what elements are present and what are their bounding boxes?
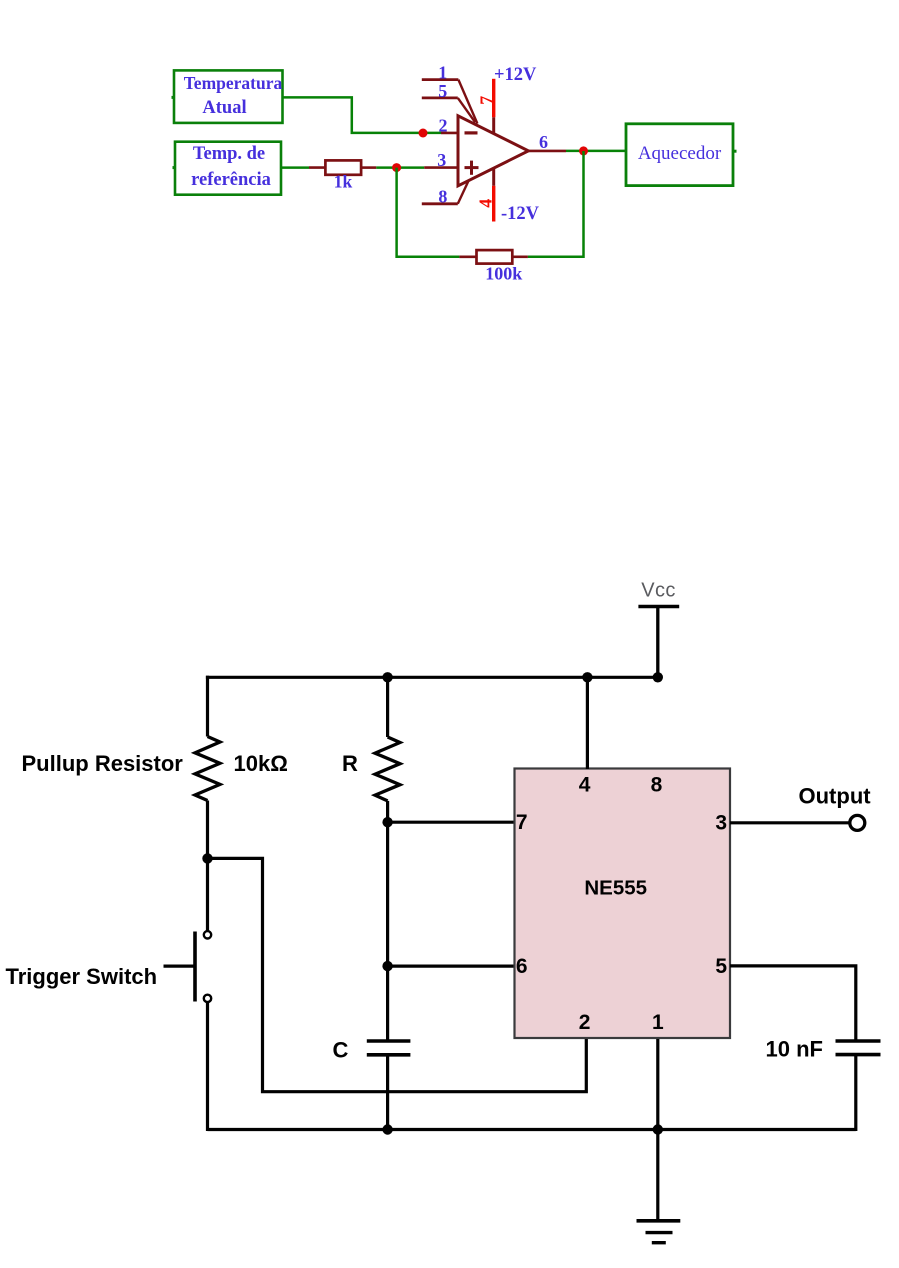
terminal Output bbox=[850, 815, 865, 830]
svg-text:referência: referência bbox=[191, 170, 271, 190]
junction bbox=[382, 672, 392, 682]
svg-text:6: 6 bbox=[516, 955, 528, 978]
svg-text:NE555: NE555 bbox=[584, 877, 647, 900]
svg-text:+12V: +12V bbox=[494, 65, 537, 85]
svg-text:8: 8 bbox=[651, 774, 663, 797]
svg-text:1: 1 bbox=[652, 1011, 664, 1034]
junction bbox=[382, 961, 392, 971]
resistor R2 100k bbox=[459, 250, 528, 264]
svg-text:R: R bbox=[342, 751, 358, 776]
VCC symbol bbox=[638, 580, 679, 679]
pin 1 bbox=[422, 63, 478, 124]
svg-text:Temp. de: Temp. de bbox=[193, 144, 265, 164]
-12V rail bbox=[492, 186, 495, 222]
svg-text:4: 4 bbox=[579, 774, 591, 797]
pin 8 bbox=[422, 181, 469, 207]
junction bbox=[382, 817, 392, 827]
svg-text:10kΩ: 10kΩ bbox=[234, 751, 288, 776]
svg-text:C: C bbox=[333, 1038, 349, 1063]
wire bbox=[283, 97, 442, 132]
wire bbox=[424, 166, 458, 169]
wire bbox=[206, 676, 209, 737]
wire bbox=[397, 168, 460, 257]
IC NE555 bbox=[515, 769, 731, 1039]
wire bbox=[281, 166, 309, 169]
svg-text:5: 5 bbox=[715, 955, 727, 978]
svg-text:100k: 100k bbox=[485, 263, 522, 283]
wire bbox=[206, 801, 209, 932]
wire pin 3 bbox=[730, 821, 850, 824]
svg-text:Vcc: Vcc bbox=[641, 580, 676, 602]
svg-text:1: 1 bbox=[438, 63, 447, 83]
svg-text:Output: Output bbox=[799, 784, 872, 809]
op-amp U1 bbox=[458, 116, 528, 186]
wire pin 7 bbox=[388, 821, 515, 824]
block Temp. de referencia bbox=[173, 142, 282, 195]
junction bbox=[202, 853, 212, 863]
svg-text:2: 2 bbox=[579, 1011, 591, 1034]
svg-text:Aquecedor: Aquecedor bbox=[638, 143, 722, 164]
capacitor 10nF bbox=[836, 1041, 881, 1055]
wire bbox=[528, 150, 566, 153]
trigger switch S1 bbox=[164, 931, 212, 1002]
svg-text:Atual: Atual bbox=[202, 98, 246, 118]
svg-text:Temperatura: Temperatura bbox=[184, 73, 283, 93]
wire bbox=[206, 1002, 209, 1131]
pin 7 stub bbox=[492, 117, 495, 134]
wire pin 6 bbox=[388, 964, 515, 967]
wire bbox=[376, 166, 424, 169]
resistor R bbox=[375, 737, 400, 801]
junction bbox=[653, 1124, 663, 1134]
junction bbox=[579, 146, 588, 155]
resistor Pullup 10k bbox=[195, 737, 220, 801]
junction bbox=[653, 672, 663, 682]
wire pin 5 bbox=[730, 966, 856, 1040]
svg-text:8: 8 bbox=[438, 187, 447, 207]
wire top rail bbox=[206, 676, 658, 679]
wire bbox=[386, 1055, 389, 1130]
svg-text:6: 6 bbox=[539, 132, 548, 152]
svg-text:7: 7 bbox=[516, 811, 528, 834]
pin 4 stub bbox=[492, 168, 495, 186]
svg-text:5: 5 bbox=[438, 81, 447, 101]
block Temperatura Atual bbox=[172, 70, 283, 123]
svg-text:Pullup Resistor: Pullup Resistor bbox=[22, 751, 184, 776]
wire bbox=[528, 151, 584, 257]
resistor R1 1k bbox=[309, 160, 376, 174]
wire bbox=[386, 801, 389, 1041]
junction bbox=[419, 129, 428, 138]
svg-text:10 nF: 10 nF bbox=[766, 1037, 823, 1062]
ground bbox=[637, 1221, 681, 1243]
wire bbox=[566, 150, 626, 153]
wire pin 1 bbox=[656, 1039, 659, 1221]
svg-text:Trigger Switch: Trigger Switch bbox=[6, 964, 158, 989]
wire bottom rail bbox=[208, 1128, 856, 1131]
capacitor C bbox=[367, 1041, 411, 1055]
block Aquecedor bbox=[626, 124, 737, 186]
pin 5 bbox=[422, 81, 475, 123]
wire bbox=[441, 132, 458, 135]
junction bbox=[582, 672, 592, 682]
junction bbox=[382, 1124, 392, 1134]
wire trigger to pin 2 bbox=[208, 858, 587, 1091]
wire bbox=[386, 677, 389, 737]
wire pin 4 bbox=[586, 677, 589, 769]
wire bbox=[854, 1055, 857, 1131]
junction bbox=[392, 163, 401, 172]
svg-text:3: 3 bbox=[715, 812, 727, 835]
svg-text:-12V: -12V bbox=[501, 204, 540, 224]
+12V rail bbox=[492, 79, 495, 117]
svg-text:1k: 1k bbox=[334, 172, 353, 192]
